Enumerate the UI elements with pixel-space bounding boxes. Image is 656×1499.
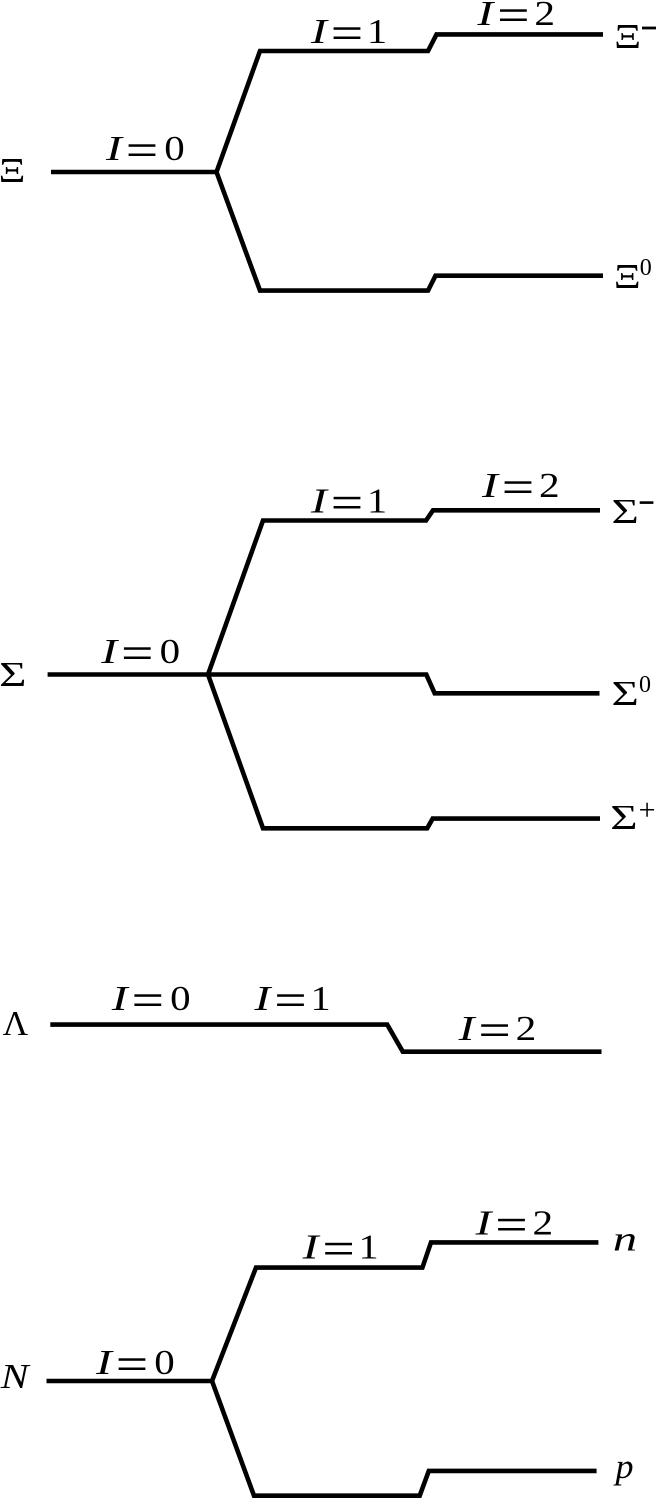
- level Sigma lower branch: Sigma-plus I=1 and I=2 levels: [208, 675, 600, 829]
- svg-text:I: I: [457, 1010, 476, 1049]
- level N upper chain: I=0 line, branch to neutron I=1 and I=2 levels: [47, 1242, 599, 1381]
- label I=0 (Sigma): [100, 633, 180, 672]
- svg-text:Σ: Σ: [612, 674, 639, 713]
- svg-text:Λ: Λ: [3, 1004, 29, 1043]
- svg-text:0: 0: [639, 672, 651, 698]
- label N (left): [0, 1358, 31, 1396]
- svg-text:I: I: [474, 1204, 493, 1243]
- svg-text:I: I: [253, 980, 272, 1019]
- svg-text:2: 2: [533, 1204, 554, 1242]
- label I=1 (N): [301, 1228, 378, 1267]
- label Xi-minus: [614, 18, 656, 56]
- label I=2 (Xi): [476, 0, 555, 33]
- level Xi upper chain: I=0 line, branch to Xi-minus I=1 and I=2 levels: [51, 34, 603, 172]
- label I=0 (Lambda): [111, 980, 191, 1019]
- svg-text:I: I: [310, 482, 329, 521]
- svg-text:0: 0: [164, 130, 184, 169]
- svg-text:Σ: Σ: [610, 798, 637, 837]
- svg-text:0: 0: [160, 633, 180, 672]
- label Xi (left): [0, 152, 25, 190]
- svg-text:I: I: [481, 467, 500, 506]
- level N lower branch: proton I=1 and I=2 levels: [212, 1381, 597, 1496]
- svg-text:Ξ: Ξ: [614, 18, 641, 56]
- label I=1 (Lambda): [253, 979, 330, 1018]
- level Lambda chain: I=0, I=1 level and I=2 step: [50, 1025, 601, 1052]
- label Xi-zero: [614, 255, 652, 296]
- svg-text:I: I: [105, 130, 124, 169]
- svg-text:p: p: [612, 1446, 633, 1485]
- label Sigma-zero: [612, 672, 652, 713]
- svg-text:0: 0: [154, 1344, 174, 1383]
- svg-text:I: I: [310, 13, 329, 52]
- label I=0 (N): [95, 1344, 175, 1383]
- svg-text:2: 2: [516, 1010, 537, 1048]
- label I=0 (Xi): [105, 130, 185, 169]
- svg-text:0: 0: [170, 980, 190, 1019]
- svg-text:1: 1: [367, 12, 387, 51]
- svg-text:I: I: [95, 1344, 114, 1383]
- svg-text:1: 1: [310, 979, 330, 1018]
- label Sigma-plus: [610, 794, 655, 837]
- label I=2 (Sigma): [481, 467, 560, 506]
- svg-text:Ξ: Ξ: [614, 258, 641, 296]
- label I=2 (N): [474, 1204, 553, 1243]
- level Sigma upper branch: Sigma-minus I=1 and I=2 levels: [48, 510, 600, 674]
- svg-text:n: n: [613, 1220, 637, 1259]
- svg-text:I: I: [111, 980, 130, 1019]
- svg-text:Ξ: Ξ: [0, 152, 25, 190]
- svg-text:I: I: [301, 1228, 320, 1267]
- svg-text:2: 2: [539, 467, 560, 505]
- svg-text:+: +: [639, 794, 656, 827]
- svg-text:I: I: [476, 0, 495, 33]
- svg-text:0: 0: [640, 255, 652, 281]
- label Sigma (left): [0, 655, 26, 694]
- svg-text:Σ: Σ: [0, 655, 26, 694]
- label proton p: [612, 1446, 633, 1485]
- svg-text:I: I: [100, 633, 119, 672]
- label I=1 (Sigma): [310, 482, 387, 521]
- svg-text:Σ: Σ: [612, 492, 639, 531]
- label I=2 (Lambda): [457, 1010, 536, 1049]
- level Sigma middle branch: Sigma-zero I=2 step: [208, 675, 600, 694]
- svg-text:N: N: [0, 1358, 31, 1396]
- svg-text:2: 2: [534, 0, 555, 33]
- label neutron n: [613, 1220, 637, 1259]
- label I=1 (Xi): [310, 12, 387, 51]
- svg-text:1: 1: [359, 1228, 379, 1267]
- svg-text:1: 1: [367, 482, 387, 521]
- label Sigma-minus: [612, 492, 654, 531]
- level Xi lower branch: Xi-zero I=1 and I=2 levels: [217, 172, 604, 291]
